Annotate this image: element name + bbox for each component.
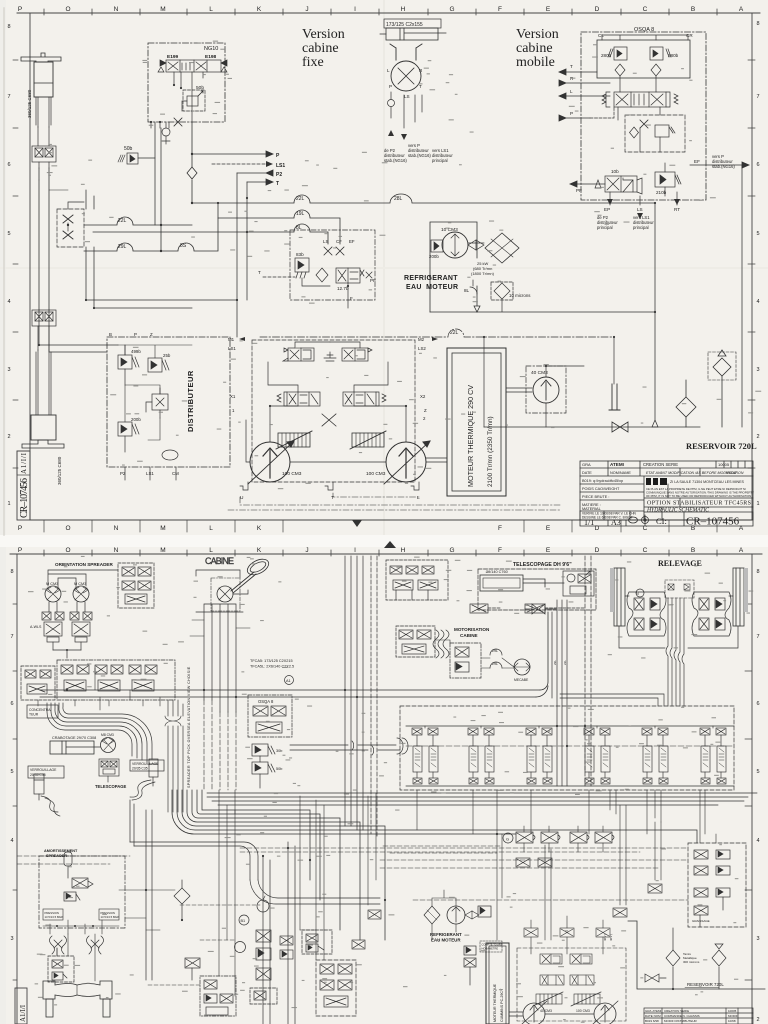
svg-text:8: 8: [756, 569, 759, 575]
kit valves above pump section: [524, 916, 610, 954]
bottom center small cluster A: [280, 910, 381, 959]
refrigerant circuit frame: [430, 222, 480, 312]
svg-text:PF: PF: [576, 188, 582, 193]
pilot solenoid valve right: [330, 342, 372, 361]
svg-text:P: P: [134, 332, 137, 337]
svg-text:ATEMI: ATEMI: [610, 462, 624, 467]
right margin ticks p2: [745, 604, 752, 980]
sheet edge: [3, 8, 5, 535]
svg-text:DISTRIBUTEUR: DISTRIBUTEUR: [186, 370, 195, 432]
steering column wires: [204, 604, 236, 712]
brake valve left: [42, 602, 64, 650]
NG10 dash-dot enclosure: [148, 43, 225, 122]
number box lines: [580, 511, 753, 526]
svg-text:25b: 25b: [163, 353, 171, 358]
svg-text:PF: PF: [370, 278, 376, 283]
svg-text:6: 6: [756, 701, 759, 707]
svg-text:T: T: [258, 270, 261, 275]
svg-text:280b: 280b: [668, 53, 679, 58]
wires NG10 to jack lines: [155, 122, 161, 225]
fan blades: [468, 240, 484, 250]
projection symbols: [627, 515, 650, 525]
svg-text:A-WLS: A-WLS: [30, 625, 42, 629]
DISTRIBUTEUR dash-dot box: [107, 337, 230, 467]
tank bottom line: [484, 426, 700, 428]
valve 499b: [118, 345, 139, 385]
svg-text:L: L: [570, 89, 573, 94]
svg-text:CABINE: CABINE: [205, 556, 234, 566]
wires jack1 down: [39, 168, 49, 310]
OSQA8 enclosure: [581, 32, 706, 200]
telescope check valve: [525, 604, 556, 614]
svg-text:B1: B1: [241, 919, 246, 923]
wire 8L: [93, 224, 328, 244]
top ruler ticks: [44, 9, 717, 15]
svg-text:360/125 C680: 360/125 C680: [27, 89, 32, 118]
svg-text:Z: Z: [424, 408, 427, 413]
svg-text:PIECE BRUTE :: PIECE BRUTE :: [582, 495, 609, 499]
refrigerant2 filter diamond left: [424, 906, 440, 924]
pump transmission dashed enclosure: [252, 340, 415, 482]
junction dots jack lines: [67, 224, 69, 226]
tank2 rail: [628, 921, 765, 989]
svg-text:K: K: [257, 525, 262, 532]
top ruler line p2: [10, 553, 762, 555]
svg-text:M: M: [160, 547, 165, 554]
svg-text:B: B: [691, 547, 695, 554]
svg-text:8S: 8S: [180, 243, 187, 249]
jack2 cylinder body: [31, 415, 56, 440]
svg-text:I: I: [354, 547, 356, 554]
svg-text:40V (: 40V (: [609, 934, 613, 941]
svg-text:L: L: [209, 547, 213, 554]
right dashed valve bank: [688, 843, 746, 927]
svg-text:ORIENTATION SPREADER: ORIENTATION SPREADER: [55, 562, 113, 567]
svg-text:MODIF: MODIF: [726, 471, 737, 475]
scan shading left edge: [0, 0, 6, 1024]
svg-text:MOTORISATION: MOTORISATION: [454, 627, 490, 632]
brake valve right: [70, 602, 92, 650]
arrows to distributor fixe: [388, 130, 407, 140]
jack2 foot: [22, 440, 64, 448]
svg-text:REFRIGERANT: REFRIGERANT: [430, 932, 462, 937]
svg-text:OF PPM, IT IS NOT TO BE USED O: OF PPM, IT IS NOT TO BE USED OR REPRODUC…: [646, 494, 751, 498]
svg-text:X2: X2: [420, 394, 426, 399]
svg-text:GRA: GRA: [582, 462, 591, 467]
fold crease horizontal: [0, 267, 768, 269]
wire 29L with hop: [84, 225, 161, 251]
bus A feeders left: [95, 668, 160, 710]
svg-text:cabine: cabine: [516, 41, 553, 56]
PAGE 2: [10, 541, 765, 1024]
telescopage dashed enclosure: [478, 569, 596, 610]
svg-text:CONCENTRA-: CONCENTRA-: [29, 708, 52, 712]
relevage valve block right: [692, 592, 731, 636]
svg-text:360/125 C680: 360/125 C680: [57, 456, 62, 485]
bottom center gauge: [235, 942, 246, 953]
feed lines into manifold: [290, 741, 400, 755]
svg-text:L: L: [417, 495, 420, 501]
svg-text:6: 6: [756, 162, 759, 168]
OSQA bottom ports: [610, 192, 677, 205]
inter-page white gap: [0, 535, 768, 547]
refrigerant2 fan pump: [447, 906, 465, 924]
shutoff valve: [612, 422, 628, 432]
port arrow P: [192, 151, 273, 157]
port arrow T: [247, 179, 273, 185]
top ruler letters: [18, 6, 744, 13]
filter diamond left: [615, 64, 625, 76]
filter diamond right: [651, 64, 661, 76]
svg-text:Version: Version: [516, 27, 559, 42]
bottom center dashed cluster: [200, 976, 236, 1016]
svg-text:F: F: [498, 525, 502, 532]
wire 8S hop: [161, 203, 218, 251]
AMORTISSEMENT SPREADER box: [39, 856, 125, 928]
svg-text:8L: 8L: [464, 288, 470, 293]
G-row valve 4: [595, 832, 614, 843]
svg-text:20/35 C35: 20/35 C35: [132, 767, 148, 771]
svg-text:M: M: [160, 525, 165, 532]
svg-text:10 microns: 10 microns: [509, 293, 531, 298]
svg-text:OSQA 8: OSQA 8: [634, 27, 654, 33]
circled G: [503, 833, 513, 843]
svg-text:2: 2: [7, 434, 10, 440]
cabine lower valves: [252, 744, 275, 788]
left margin ticks p2: [13, 604, 17, 980]
svg-text:LS: LS: [323, 239, 328, 244]
refrigerant2 valve: [478, 906, 491, 917]
servo valves p2: [540, 975, 594, 985]
pilot check dashed box: [57, 202, 84, 247]
svg-text:6: 6: [10, 701, 13, 707]
OSQA lower valve 10b: [595, 176, 642, 194]
svg-text:E: E: [546, 6, 551, 13]
bottom ruler letters: [18, 525, 744, 532]
svg-text:300 microns: 300 microns: [683, 960, 700, 964]
telescope valve block: [563, 571, 594, 596]
svg-text:29L: 29L: [492, 649, 498, 653]
svg-text:CM: CM: [172, 471, 179, 476]
svg-text:B: B: [109, 332, 112, 337]
svg-text:1: 1: [756, 501, 759, 507]
svg-text:CR: CR: [686, 33, 693, 38]
relevage center pilot internals: [668, 584, 690, 590]
title box 5GC rotated left edge p2: [15, 988, 27, 1024]
bottom ruler ticks: [44, 520, 717, 532]
tiny port labels texture p2: [28, 556, 753, 1023]
tilt cylinder body: [380, 28, 446, 40]
svg-text:EAU MOTEUR: EAU MOTEUR: [406, 284, 458, 291]
amort relief: [64, 892, 80, 901]
left margin ticks: [13, 60, 18, 468]
wire return to tank: [430, 299, 655, 312]
valve ports down: [174, 72, 203, 122]
svg-text:RELEVAGE: RELEVAGE: [658, 559, 702, 568]
distributor internal wires: [118, 345, 192, 440]
junction dots p2: [66, 689, 674, 990]
pilot valve cluster right of motors: [118, 563, 154, 608]
pump transmission 2 dashed box: [517, 948, 626, 1021]
svg-text:L: L: [209, 525, 213, 532]
wires motors top manifold: [48, 570, 118, 588]
PPM logo: [646, 478, 667, 485]
svg-text:T: T: [419, 84, 422, 89]
amort relay left: [43, 909, 63, 920]
right margin ticks: [748, 60, 755, 468]
manifold top rail: [406, 725, 734, 727]
svg-text:5: 5: [10, 769, 13, 775]
svg-text:N: N: [114, 525, 119, 532]
bank riser: [700, 790, 716, 843]
circled B1: [239, 915, 249, 925]
svg-text:B019: q:\hydrau\tfc45\xp: B019: q:\hydrau\tfc45\xp: [582, 479, 623, 483]
jack1 piston rod: [34, 83, 53, 127]
svg-text:L: L: [209, 6, 213, 13]
pilot solenoid valve left: [283, 342, 330, 361]
svg-text:P2: P2: [276, 172, 282, 178]
top ruler line: [17, 12, 760, 14]
OSQA8 cabine block: [248, 695, 292, 737]
spreader motor right: [73, 586, 89, 602]
svg-text:100 CM3: 100 CM3: [366, 471, 386, 477]
svg-text:280b: 280b: [601, 53, 612, 58]
small cluster below filter: [185, 958, 200, 980]
dashed horizontals under bus B: [240, 848, 688, 852]
svg-text:MODIF DISTRIBUTEUR: MODIF DISTRIBUTEUR: [664, 1019, 697, 1023]
electric symbol: [324, 352, 336, 361]
svg-text:cabine: cabine: [302, 41, 339, 56]
svg-text:CABINE: CABINE: [460, 633, 478, 638]
motor drain check: [388, 92, 423, 128]
svg-text:CUMMINS PC-29CY: CUMMINS PC-29CY: [500, 988, 504, 1022]
svg-text:E199: E199: [167, 54, 179, 60]
svg-text:A: A: [739, 6, 744, 13]
heat exchanger diamond: [485, 233, 519, 263]
PAGE 1: [4, 6, 760, 535]
svg-text:H: H: [401, 547, 406, 554]
svg-text:29/140 C760: 29/140 C760: [486, 570, 508, 574]
return filter diamond tank: [676, 380, 696, 427]
svg-text:H: H: [401, 6, 406, 13]
svg-text:22L: 22L: [118, 218, 127, 224]
svg-text:HORAMETRE: HORAMETRE: [482, 947, 499, 951]
left margin numbers: [7, 24, 10, 507]
mid right verticals to tank: [545, 805, 661, 940]
solenoid valve E199/E198: [158, 60, 227, 72]
bottom fold mark: [352, 520, 362, 527]
svg-text:CREATION SERIE: CREATION SERIE: [664, 1009, 689, 1013]
svg-text:8: 8: [10, 569, 13, 575]
svg-text:50b: 50b: [276, 767, 282, 771]
tank2 inner drops: [660, 967, 719, 989]
svg-text:L: L: [387, 68, 390, 73]
svg-text:MECABE: MECABE: [514, 678, 529, 682]
relevage cylinder right: [733, 568, 748, 626]
jack wires into distributor: [39, 310, 118, 352]
svg-text:5: 5: [756, 231, 759, 237]
refrigerant2 fan: [465, 911, 479, 919]
pressure gauge circle: [257, 900, 269, 912]
left border p2: [16, 554, 18, 1024]
compte tours box: [480, 941, 502, 952]
reservoir label underline box: [685, 987, 719, 989]
wire 22L long run: [192, 194, 655, 203]
svg-text:8: 8: [756, 21, 759, 27]
small relief pair above engine2: [464, 946, 476, 985]
servo valve left: [268, 362, 320, 406]
svg-text:I: I: [354, 6, 356, 13]
engine2 box outer: [486, 943, 509, 1024]
svg-text:O: O: [65, 525, 70, 532]
pump2 right: [593, 1001, 618, 1024]
tilt cylinder label 173/125 C2x155: [384, 19, 441, 28]
svg-text:2: 2: [756, 1017, 759, 1023]
svg-text:4: 4: [7, 299, 10, 305]
svg-text:P2: P2: [120, 471, 126, 476]
title block frame: [580, 461, 753, 520]
svg-text:GRA ATEMI: GRA ATEMI: [645, 1009, 661, 1013]
vertical bus E column: [552, 600, 567, 786]
svg-text:G: G: [449, 547, 454, 554]
svg-text:22L: 22L: [563, 660, 567, 665]
svg-text:A1/I/I: A1/I/I: [20, 452, 28, 474]
jack1 balancing valve block: [32, 127, 56, 168]
svg-text:principal: principal: [597, 225, 613, 230]
wire 22L tank dashdot: [260, 329, 614, 337]
svg-text:19L: 19L: [296, 211, 305, 217]
bottom frame: [30, 519, 752, 521]
svg-text:10b: 10b: [611, 169, 619, 174]
svg-text:G: G: [506, 837, 509, 842]
fold mark top p2: [384, 541, 396, 548]
svg-text:TELESCOPAGE DH 9'6": TELESCOPAGE DH 9'6": [513, 562, 572, 568]
svg-text:TEUR: TEUR: [29, 713, 39, 717]
jack2 piston rod: [36, 350, 51, 415]
svg-text:40 CM3: 40 CM3: [531, 370, 548, 376]
relief 280b left: [608, 47, 627, 60]
svg-text:O: O: [65, 6, 70, 13]
bus B left risers: [130, 800, 152, 980]
svg-text:N: N: [114, 6, 119, 13]
svg-text:A1/I/I: A1/I/I: [19, 1004, 27, 1022]
main P wire from NG10: [191, 122, 193, 203]
suction strainer: [609, 384, 620, 410]
manifold section 8: [642, 726, 668, 784]
svg-text:RESERVOIR 720L: RESERVOIR 720L: [687, 982, 724, 987]
telescope cylinder: [480, 575, 564, 591]
svg-text:X1: X1: [230, 394, 236, 399]
arrows corners: [239, 337, 438, 341]
40 CM3 pump: [533, 377, 559, 403]
svg-text:DATE: DATE: [582, 471, 592, 475]
mid cluster row 2: [57, 660, 175, 700]
engine2 box inner: [489, 946, 506, 1024]
pump wires: [246, 406, 406, 462]
svg-text:EF: EF: [694, 159, 700, 164]
svg-text:12.7b: 12.7b: [337, 286, 349, 291]
bottom left risers: [57, 890, 146, 956]
svg-text:stab.(NG16): stab.(NG16): [712, 164, 735, 169]
svg-text:P: P: [389, 84, 392, 89]
svg-text:22L: 22L: [296, 196, 305, 202]
svg-text:7: 7: [756, 94, 759, 100]
relevage down bundle: [666, 598, 684, 706]
svg-text:C: C: [643, 6, 648, 13]
bottom center dashed links: [148, 905, 316, 985]
svg-text:MATERIAL: MATERIAL: [582, 507, 601, 511]
svg-text:CREATION SERIE: CREATION SERIE: [643, 462, 678, 467]
relevage center pilot box: [665, 580, 694, 598]
svg-text:3: 3: [756, 367, 759, 373]
svg-text:2: 2: [756, 434, 759, 440]
check valve below NG10: [162, 122, 170, 144]
breather filter: [708, 350, 736, 427]
gauge oval: [162, 450, 178, 460]
svg-text:173/125 C2x155: 173/125 C2x155: [386, 22, 423, 28]
verrouillage right cylinder: [149, 759, 158, 786]
OSQA top manifold box: [597, 40, 690, 78]
valve 83b: [295, 258, 330, 286]
svg-text:LS1: LS1: [276, 163, 285, 169]
svg-text:A: A: [739, 547, 744, 554]
bus A horizontal pair: [40, 690, 540, 697]
relevage bus links: [560, 694, 664, 706]
manifold risers down: [219, 790, 705, 834]
svg-text:TFCA5: 173/125 C2X215: TFCA5: 173/125 C2X215: [250, 659, 293, 663]
svg-text:P: P: [18, 6, 22, 13]
label vers LS1 distributeur principal: [637, 213, 643, 219]
relief 50b in NG10: [182, 90, 205, 111]
stabilizer jack top-left: crossbeam: [21, 53, 61, 62]
svg-text:K: K: [257, 547, 262, 554]
tiny port labels texture p1: [47, 41, 761, 490]
svg-text:40V (: 40V (: [603, 934, 607, 941]
svg-text:P: P: [18, 547, 22, 554]
bottom center risers: [219, 793, 376, 996]
cabine fan motor: [514, 659, 530, 675]
svg-text:MOTEUR THERMIQUE 290 CV: MOTEUR THERMIQUE 290 CV: [466, 385, 475, 487]
svg-text:U: U: [240, 495, 244, 501]
swash hatch boxes p2: [533, 992, 601, 1006]
telescopage valve block: [99, 759, 119, 782]
svg-text:J: J: [305, 6, 308, 13]
svg-text:OSQA 8: OSQA 8: [258, 699, 274, 704]
svg-text:210b: 210b: [656, 190, 667, 195]
svg-text:J: J: [305, 547, 308, 554]
amort relay right: [99, 909, 119, 920]
svg-text:P: P: [570, 111, 573, 116]
horizontal link wires bottom: [380, 860, 688, 900]
svg-text:50b: 50b: [124, 146, 133, 152]
cluster top-left right half: [386, 560, 448, 600]
svg-text:CF: CF: [336, 239, 342, 244]
pilot solenoid valves p2: [540, 954, 592, 964]
svg-text:29L: 29L: [492, 662, 498, 666]
svg-text:F: F: [498, 547, 502, 554]
S-curve bundle: [433, 630, 449, 658]
svg-text:B: B: [691, 6, 695, 13]
svg-text:F: F: [350, 296, 353, 301]
svg-text:stab.(NG16): stab.(NG16): [408, 153, 431, 158]
svg-text:CRABOTAGE 29/70 C308: CRABOTAGE 29/70 C308: [52, 736, 96, 740]
svg-text:LS2: LS2: [418, 346, 426, 351]
top ruler ticks p2: [44, 550, 717, 556]
axle beam: [43, 981, 112, 1017]
svg-text:N: N: [636, 592, 639, 596]
axle link wires: [57, 934, 95, 995]
svg-text:CR–107456: CR–107456: [19, 478, 30, 518]
